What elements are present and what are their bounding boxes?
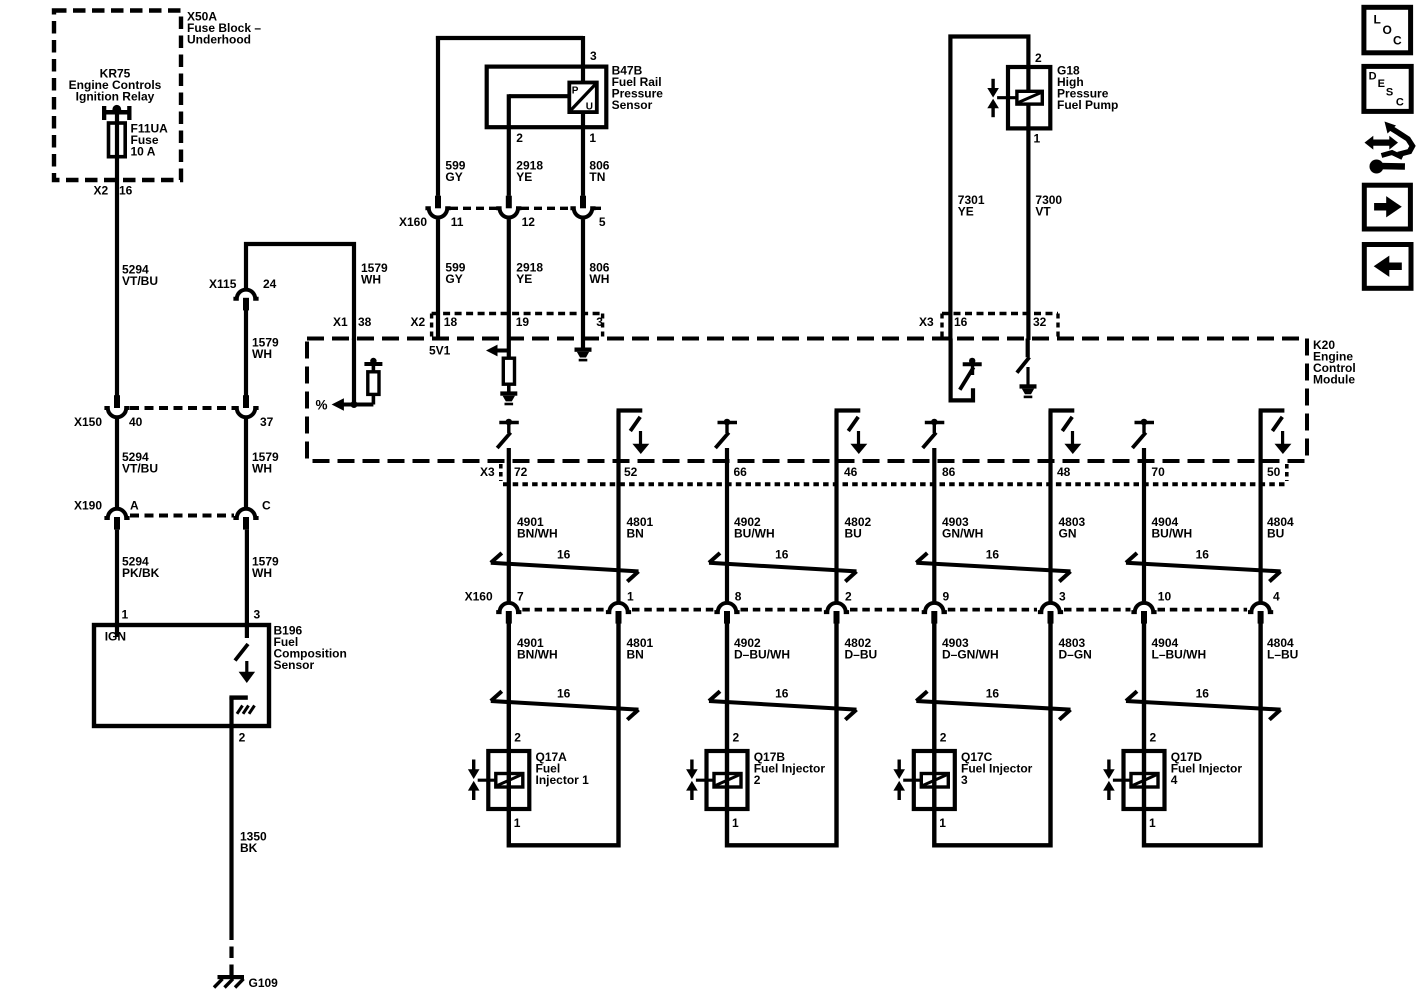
twisted pair symbol row2 pair 1	[491, 687, 639, 720]
label X2 18 19 3	[411, 315, 604, 329]
icon DESC button	[1364, 66, 1411, 111]
label K20 Engine Control Module	[1313, 338, 1356, 387]
ECM driver switch pin 48	[1049, 411, 1082, 455]
wire 1579 WH X150 to X190	[244, 419, 248, 508]
svg-text:PK/BK: PK/BK	[122, 566, 160, 580]
svg-text:Underhood: Underhood	[187, 33, 251, 47]
svg-text:18: 18	[444, 315, 458, 329]
label wire 4804 BU	[1267, 515, 1294, 541]
label 1579 WH X150-X190	[252, 450, 279, 476]
svg-text:C: C	[1393, 34, 1402, 48]
label 2918 YE lower	[516, 261, 543, 287]
connector X160 pin 7 terminal	[496, 590, 524, 624]
svg-text:Fuel Injector: Fuel Injector	[961, 762, 1033, 776]
svg-text:16: 16	[986, 548, 1000, 562]
connector X160 pin 2 terminal	[824, 590, 852, 624]
svg-text:BU: BU	[1267, 527, 1284, 541]
relay KR75 contact symbol	[102, 105, 132, 124]
svg-text:72: 72	[514, 465, 528, 479]
svg-text:2: 2	[516, 131, 523, 145]
wire ECM pin 46 to X160	[834, 411, 838, 602]
ECM K20 dashed box	[307, 339, 1307, 462]
fuse block X50A dashed box	[54, 11, 181, 181]
wire X2 19 into ECM	[507, 339, 511, 359]
sensor B196 box	[94, 625, 269, 726]
svg-text:16: 16	[119, 184, 133, 198]
label 1579 WH right of X1 wire	[361, 261, 388, 287]
svg-text:BN: BN	[627, 648, 644, 662]
wire loop injector Q17B	[727, 623, 837, 846]
label 1350 BK	[240, 830, 267, 856]
twisted pair symbol row2 pair 2	[709, 687, 857, 720]
pump G18 box	[1008, 67, 1050, 128]
wire through G18	[1026, 67, 1030, 340]
svg-text:X3: X3	[480, 465, 495, 479]
wire loop injector Q17C	[934, 623, 1050, 846]
svg-text:16: 16	[557, 548, 571, 562]
svg-text:WH: WH	[252, 566, 272, 580]
svg-text:10 A: 10 A	[131, 145, 156, 159]
svg-text:GY: GY	[445, 272, 462, 286]
twisted pair symbol row1 pair 2	[709, 548, 857, 582]
label wire 4903 D–GN/WH	[942, 636, 999, 662]
label 806 WH lower	[589, 261, 609, 287]
label wire 4801 BN	[627, 636, 654, 662]
switch blade X3 16	[960, 367, 974, 390]
svg-text:Injector 1: Injector 1	[536, 773, 590, 787]
label wire 4804 L–BU	[1267, 636, 1298, 662]
svg-text:8: 8	[735, 590, 742, 604]
svg-text:S: S	[1386, 86, 1393, 98]
svg-text:16: 16	[954, 315, 968, 329]
ECM driver switch pin 70	[1132, 419, 1154, 448]
svg-text:2: 2	[845, 590, 852, 604]
svg-text:X3: X3	[919, 315, 934, 329]
svg-text:4: 4	[1171, 773, 1178, 787]
svg-text:WH: WH	[361, 273, 381, 287]
wire horizontal to percent arrow	[332, 398, 374, 410]
wire 2918 YE X160 to X2 19	[507, 219, 511, 338]
label 1579 WH below X115	[252, 336, 279, 362]
connector X160 pin 12 terminal	[496, 196, 521, 218]
svg-text:1: 1	[732, 816, 739, 830]
ECM driver switch pin 72	[497, 419, 519, 448]
connector X160 pin 5 terminal	[570, 196, 595, 218]
solenoid element Q17B	[714, 774, 741, 788]
connector X150 pin 37 terminal	[233, 395, 258, 417]
svg-text:X150: X150	[74, 415, 102, 429]
wire ECM pin 52 to X160	[616, 411, 620, 602]
svg-text:Ignition Relay: Ignition Relay	[76, 90, 155, 104]
svg-text:1: 1	[589, 131, 596, 145]
wire 1579 WH X115 to X150	[244, 310, 248, 396]
label wire 4904 L–BU/WH	[1152, 636, 1207, 662]
svg-text:BN: BN	[627, 527, 644, 541]
label 599 GY lower	[445, 261, 465, 287]
svg-text:X2: X2	[94, 184, 109, 198]
svg-text:U: U	[586, 102, 593, 113]
label 2918 YE	[516, 159, 543, 185]
svg-text:3: 3	[254, 608, 261, 622]
wire X1 38 into ECM	[352, 339, 356, 407]
resistor on 5V1 line	[503, 358, 514, 392]
connector X190 pin A terminal	[104, 509, 129, 530]
svg-text:GY: GY	[445, 170, 462, 184]
label Q17A text	[536, 750, 590, 787]
valve arrows Q17D	[1103, 760, 1131, 801]
svg-text:O: O	[1383, 23, 1392, 37]
svg-text:D–BU: D–BU	[845, 648, 878, 662]
svg-text:GN: GN	[1059, 527, 1077, 541]
solenoid element Q17C	[921, 774, 948, 788]
connector X160 pin 10 terminal	[1131, 590, 1171, 624]
label G18 High Pressure Fuel Pump	[1057, 64, 1118, 113]
wire ECM pin 72 to X160	[507, 448, 511, 601]
svg-text:2: 2	[1035, 51, 1042, 65]
svg-text:BN/WH: BN/WH	[517, 648, 558, 662]
label wire 4802 D–BU	[845, 636, 878, 662]
svg-text:5V1: 5V1	[429, 344, 451, 358]
svg-text:38: 38	[358, 315, 372, 329]
label wire 4904 BU/WH	[1152, 515, 1193, 541]
label 806 TN	[589, 159, 609, 185]
label Q17D text	[1171, 750, 1243, 787]
svg-text:16: 16	[1196, 548, 1210, 562]
ECM driver switch pin 66	[715, 419, 737, 448]
wire loop injector Q17A	[509, 623, 619, 846]
label X160 11 12 5	[399, 215, 606, 229]
svg-text:D–BU/WH: D–BU/WH	[734, 648, 790, 662]
label B196 Fuel Composition Sensor	[274, 624, 347, 673]
wire loop injector Q17D	[1144, 623, 1261, 846]
connector X190 dotted line	[130, 514, 234, 518]
ground below 5V1 resistor	[500, 391, 517, 405]
svg-text:86: 86	[942, 465, 956, 479]
label wire 4803 D–GN	[1059, 636, 1092, 662]
svg-text:3: 3	[596, 315, 603, 329]
svg-text:1: 1	[939, 816, 946, 830]
connector X115 pin 24 terminal	[233, 290, 258, 311]
twisted pair symbol row2 pair 4	[1126, 687, 1281, 720]
svg-text:D–GN: D–GN	[1059, 648, 1092, 662]
connector X3 injector dotted line	[501, 464, 1287, 484]
svg-text:YE: YE	[516, 272, 532, 286]
connector X160 sensor dashed line	[450, 207, 601, 210]
internal supply node above resistor	[364, 358, 382, 364]
arrow 5V reference left	[486, 345, 509, 357]
svg-text:3: 3	[590, 49, 597, 63]
connector X160 pin 3 terminal	[1038, 590, 1066, 624]
svg-text:2: 2	[733, 731, 740, 745]
svg-text:32: 32	[1033, 315, 1047, 329]
wire X3 32 internal	[1026, 339, 1030, 358]
valve arrows Q17A	[468, 760, 496, 801]
wire 599 GY X160 to X2 18	[436, 219, 440, 338]
svg-text:2: 2	[1150, 731, 1157, 745]
label F11UA Fuse 10 A	[131, 122, 169, 159]
connector X3 ECM dashed box	[942, 314, 1058, 339]
svg-text:X160: X160	[399, 215, 427, 229]
icon LOC button	[1364, 7, 1411, 53]
svg-text:WH: WH	[252, 462, 272, 476]
svg-text:TN: TN	[589, 170, 605, 184]
twisted pair symbol row1 pair 1	[491, 548, 639, 582]
svg-text:BU/WH: BU/WH	[734, 527, 775, 541]
label wire 4901 BN/WH	[517, 636, 558, 662]
svg-text:WH: WH	[252, 347, 272, 361]
svg-text:C: C	[262, 499, 271, 513]
wire 7301 YE loop from G18 pin 2	[950, 37, 1028, 341]
wire B196 pin 2 to G109	[229, 697, 233, 975]
wire B47B pin 2 horizontal	[509, 94, 570, 98]
icon back arrow button	[1364, 245, 1411, 289]
valve arrows of G18	[987, 79, 1017, 117]
icon next arrow button	[1364, 185, 1410, 229]
svg-text:2: 2	[940, 731, 947, 745]
svg-text:52: 52	[624, 465, 638, 479]
injector Q17C box	[914, 751, 955, 809]
solenoid element Q17D	[1131, 774, 1158, 788]
injector Q17B box	[707, 751, 748, 809]
wire B196 pin 3 internal	[245, 530, 249, 638]
twisted pair symbol row2 pair 3	[916, 687, 1070, 720]
wire B47B pin 3	[581, 36, 585, 83]
wire X2 3 into ECM	[581, 339, 585, 348]
svg-text:%: %	[316, 398, 328, 413]
junction node X1 38	[351, 401, 358, 408]
svg-text:2: 2	[239, 731, 246, 745]
label X115 24	[209, 277, 277, 291]
valve arrows Q17C	[893, 760, 921, 801]
arrow down inside B196	[239, 661, 256, 683]
svg-text:9: 9	[943, 590, 950, 604]
injector Q17A box	[488, 751, 529, 809]
resistor inside ECM on X1 38	[368, 366, 379, 405]
svg-text:E: E	[1378, 78, 1385, 90]
label 599 GY	[445, 159, 465, 185]
svg-text:Fuel Pump: Fuel Pump	[1057, 98, 1118, 112]
svg-text:X115: X115	[209, 277, 237, 291]
svg-text:C: C	[1396, 96, 1404, 108]
svg-text:16: 16	[775, 687, 789, 701]
svg-text:16: 16	[775, 548, 789, 562]
chassis ground hash inside B196	[237, 706, 255, 714]
svg-text:3: 3	[961, 773, 968, 787]
wire ECM pin 86 to X160	[932, 448, 936, 601]
svg-text:VT: VT	[1035, 205, 1051, 219]
svg-text:X160: X160	[465, 590, 493, 604]
svg-text:VT/BU: VT/BU	[122, 462, 158, 476]
wire 5294 PK/BK X190 to B196 pin 1	[115, 530, 119, 637]
label 5294 VT/BU	[122, 450, 158, 476]
svg-text:P: P	[572, 86, 579, 97]
svg-text:X1: X1	[333, 315, 348, 329]
svg-text:11: 11	[451, 215, 464, 229]
svg-text:50: 50	[1267, 465, 1281, 479]
svg-text:66: 66	[734, 465, 748, 479]
svg-text:Fuel Injector: Fuel Injector	[754, 762, 826, 776]
label 5294 VT/BU	[122, 263, 158, 289]
label 7300 VT	[1035, 193, 1062, 219]
solenoid element Q17A	[496, 774, 523, 788]
twisted pair symbol row1 pair 3	[916, 548, 1070, 582]
svg-text:X190: X190	[74, 499, 102, 513]
svg-text:Sensor: Sensor	[274, 658, 315, 672]
connector X160 pin 11 terminal	[425, 196, 450, 218]
label X1 38	[333, 315, 372, 329]
label KR75 Engine Controls Ignition Relay	[69, 67, 162, 104]
svg-text:YE: YE	[516, 170, 532, 184]
wire 599 GY down to X160	[436, 36, 440, 196]
wire 2918 YE down to X160	[507, 94, 511, 196]
svg-text:70: 70	[1151, 465, 1165, 479]
connector X190 pin C terminal	[233, 509, 258, 530]
switch blade inside B196	[235, 644, 248, 661]
wire X3 16 internal L	[951, 339, 973, 401]
label wire 4801 BN	[627, 515, 654, 541]
label wire 4902 BU/WH	[734, 515, 775, 541]
solenoid element inside G18	[1017, 91, 1042, 104]
wire ECM pin 48 to X160	[1048, 411, 1052, 602]
svg-text:1: 1	[1149, 816, 1156, 830]
svg-text:7: 7	[517, 590, 524, 604]
wire top horizontal 599 GY	[436, 36, 583, 40]
switch blade X3 32	[1017, 357, 1030, 373]
svg-text:12: 12	[522, 215, 536, 229]
supply node X3 16	[963, 358, 982, 375]
svg-text:19: 19	[516, 315, 530, 329]
connector X150 dotted line	[130, 406, 234, 410]
svg-text:3: 3	[1059, 590, 1066, 604]
label wire 4803 GN	[1059, 515, 1086, 541]
wire 5294 VT/BU from fuse to X150	[115, 123, 119, 396]
ECM driver switch pin 86	[923, 419, 945, 448]
wire 1579 WH from X115 up and right to X1 38	[246, 244, 354, 340]
connector X160 pin 4 terminal	[1248, 590, 1280, 624]
label 7301 YE	[958, 193, 985, 219]
sensor B47B box	[487, 67, 607, 128]
connector X160 pin 1 terminal	[606, 590, 634, 624]
internal ground bar inside B196	[229, 695, 247, 699]
svg-text:16: 16	[557, 687, 571, 701]
wire 5294 VT/BU X150 to X190	[115, 419, 119, 508]
label wire 4802 BU	[845, 515, 872, 541]
svg-text:X2: X2	[411, 315, 426, 329]
svg-text:40: 40	[129, 415, 143, 429]
svg-text:1: 1	[627, 590, 634, 604]
svg-text:D–GN/WH: D–GN/WH	[942, 648, 999, 662]
svg-text:37: 37	[260, 415, 274, 429]
connector X2 ECM dashed box	[432, 314, 603, 339]
svg-text:L: L	[1374, 13, 1381, 27]
label X190 A C	[74, 499, 271, 513]
ground G109 symbol	[214, 975, 244, 988]
ECM driver switch pin 46	[835, 411, 868, 455]
wire ECM pin 70 to X160	[1142, 448, 1146, 601]
label 1579 WH above B196 pin 3	[252, 555, 279, 581]
svg-text:4: 4	[1273, 590, 1280, 604]
connector X150 pin 40 terminal	[104, 395, 129, 417]
label wire 4902 D–BU/WH	[734, 636, 790, 662]
svg-text:L–BU: L–BU	[1267, 648, 1298, 662]
svg-text:Fuel Injector: Fuel Injector	[1171, 762, 1243, 776]
svg-text:48: 48	[1057, 465, 1071, 479]
label X3 16 32	[919, 315, 1047, 329]
svg-text:5: 5	[599, 215, 606, 229]
svg-text:2: 2	[754, 773, 761, 787]
wire 806 TN down to X160	[581, 112, 585, 196]
icon harness routing	[1365, 122, 1413, 174]
label X2 16 fuse block pins	[94, 184, 133, 198]
ECM driver switch pin 50	[1259, 411, 1292, 455]
fuse F11UA symbol	[109, 123, 126, 157]
connector X160 pin 9 terminal	[922, 590, 950, 624]
svg-text:D: D	[1369, 70, 1377, 82]
svg-text:1: 1	[1034, 132, 1041, 146]
svg-text:46: 46	[844, 465, 858, 479]
pressure sensor P/U element	[569, 83, 597, 113]
svg-text:IGN: IGN	[105, 630, 126, 644]
ground X3 32	[1020, 367, 1037, 398]
svg-text:1: 1	[514, 816, 521, 830]
svg-text:YE: YE	[958, 205, 974, 219]
connector X160 pin 8 terminal	[714, 590, 741, 624]
ECM driver switch pin 52	[617, 411, 650, 455]
svg-text:24: 24	[263, 277, 277, 291]
svg-text:Sensor: Sensor	[612, 98, 653, 112]
svg-text:10: 10	[1158, 590, 1172, 604]
svg-text:A: A	[130, 499, 139, 513]
wire ECM pin 66 to X160	[725, 448, 729, 601]
twisted pair symbol row1 pair 4	[1126, 548, 1281, 582]
label Q17C text	[961, 750, 1033, 787]
svg-text:1: 1	[122, 608, 129, 622]
svg-text:L–BU/WH: L–BU/WH	[1152, 648, 1207, 662]
label wire 4901 BN/WH	[517, 515, 558, 541]
wire 806 WH X160 to X2 3	[581, 219, 585, 338]
ground on X2 3	[575, 348, 592, 362]
label X50A Fuse Block - Underhood	[187, 10, 261, 47]
svg-text:G109: G109	[249, 976, 279, 990]
label wire 4903 GN/WH	[942, 515, 983, 541]
svg-text:2: 2	[514, 731, 521, 745]
svg-text:VT/BU: VT/BU	[122, 274, 158, 288]
svg-text:Module: Module	[1313, 373, 1355, 387]
valve arrows Q17B	[686, 760, 714, 801]
injector Q17D box	[1124, 751, 1165, 809]
svg-text:16: 16	[1196, 687, 1210, 701]
label Q17B text	[754, 750, 826, 787]
svg-text:WH: WH	[589, 272, 609, 286]
wire ECM pin 50 to X160	[1258, 411, 1262, 602]
label 5294 PK/BK	[122, 555, 160, 581]
connector X160 injector dotted line	[522, 608, 1247, 612]
svg-text:16: 16	[986, 687, 1000, 701]
svg-text:BK: BK	[240, 841, 258, 855]
label B47B Fuel Rail Pressure Sensor	[612, 64, 664, 113]
svg-text:GN/WH: GN/WH	[942, 527, 983, 541]
svg-text:BU/WH: BU/WH	[1152, 527, 1193, 541]
svg-text:BU: BU	[845, 527, 862, 541]
label X150 40 37	[74, 415, 274, 429]
svg-text:BN/WH: BN/WH	[517, 527, 558, 541]
